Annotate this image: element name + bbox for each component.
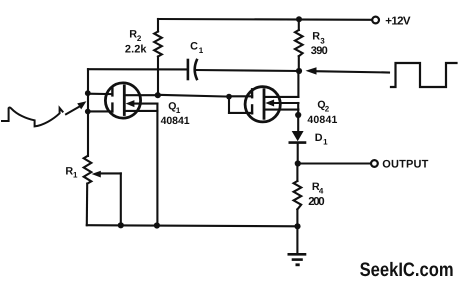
svg-text:4: 4 [319, 187, 324, 196]
potentiometer R1 [84, 156, 121, 225]
svg-text:2: 2 [137, 34, 142, 43]
node gate2 on left column [85, 109, 91, 115]
svg-text:OUTPUT: OUTPUT [382, 158, 428, 170]
resistor R3 [295, 19, 303, 71]
node Q2 source / D1 anode [295, 112, 301, 118]
wire top supply rail [158, 18, 372, 21]
ground [289, 254, 305, 264]
svg-text:1: 1 [199, 46, 204, 55]
svg-text:R: R [312, 31, 320, 43]
svg-text:40841: 40841 [161, 115, 190, 127]
svg-text:40841: 40841 [307, 114, 337, 126]
node wiper/rail [118, 222, 124, 228]
+12V terminal [372, 17, 379, 24]
input waveform squiggle [2, 107, 63, 126]
OUTPUT terminal [371, 160, 378, 167]
svg-text:C: C [190, 40, 198, 52]
resistor R2 [154, 19, 162, 95]
node B (R3 bottom / C1 right / Q2 drain) [296, 68, 302, 74]
node R4 bottom / ground rail [294, 223, 300, 229]
svg-text:200: 200 [308, 196, 325, 208]
wire left gate column [87, 69, 89, 156]
arrow from square-wave input into node B [306, 67, 390, 74]
node top rail / R3 junction [296, 16, 302, 22]
svg-text:1: 1 [323, 137, 328, 146]
svg-text:D: D [315, 132, 323, 144]
transistor Q1 (40841 dual-gate MOSFET) [88, 83, 158, 226]
input arrow [66, 101, 86, 114]
square wave glyph [391, 63, 457, 87]
svg-text:390: 390 [311, 45, 328, 57]
wire node A horizontal (R2 bottom / C1 left / gate column) [88, 68, 187, 70]
wire bottom rail [87, 225, 298, 226]
wire Q1 drain to Q2 gates [158, 95, 229, 97]
node gate1 on left column [85, 90, 91, 96]
node Q1 source/rail [154, 222, 160, 228]
diode D1 [290, 131, 305, 164]
svg-text:SeekIC.com: SeekIC.com [360, 259, 454, 281]
svg-text:+12V: +12V [385, 16, 411, 28]
svg-text:1: 1 [176, 106, 181, 115]
node output junction [295, 160, 301, 166]
node Q1 drain [155, 92, 161, 98]
svg-text:3: 3 [320, 36, 325, 45]
transistor Q2 (40841 dual-gate MOSFET) [229, 71, 298, 132]
svg-text:1: 1 [73, 170, 78, 179]
svg-text:2: 2 [325, 104, 330, 113]
resistor R4 [294, 164, 302, 254]
wire to OUTPUT terminal [298, 162, 371, 164]
capacitor C1 [188, 60, 299, 79]
svg-text:2.2k: 2.2k [125, 43, 147, 55]
node Q2 gate junction [226, 94, 232, 100]
